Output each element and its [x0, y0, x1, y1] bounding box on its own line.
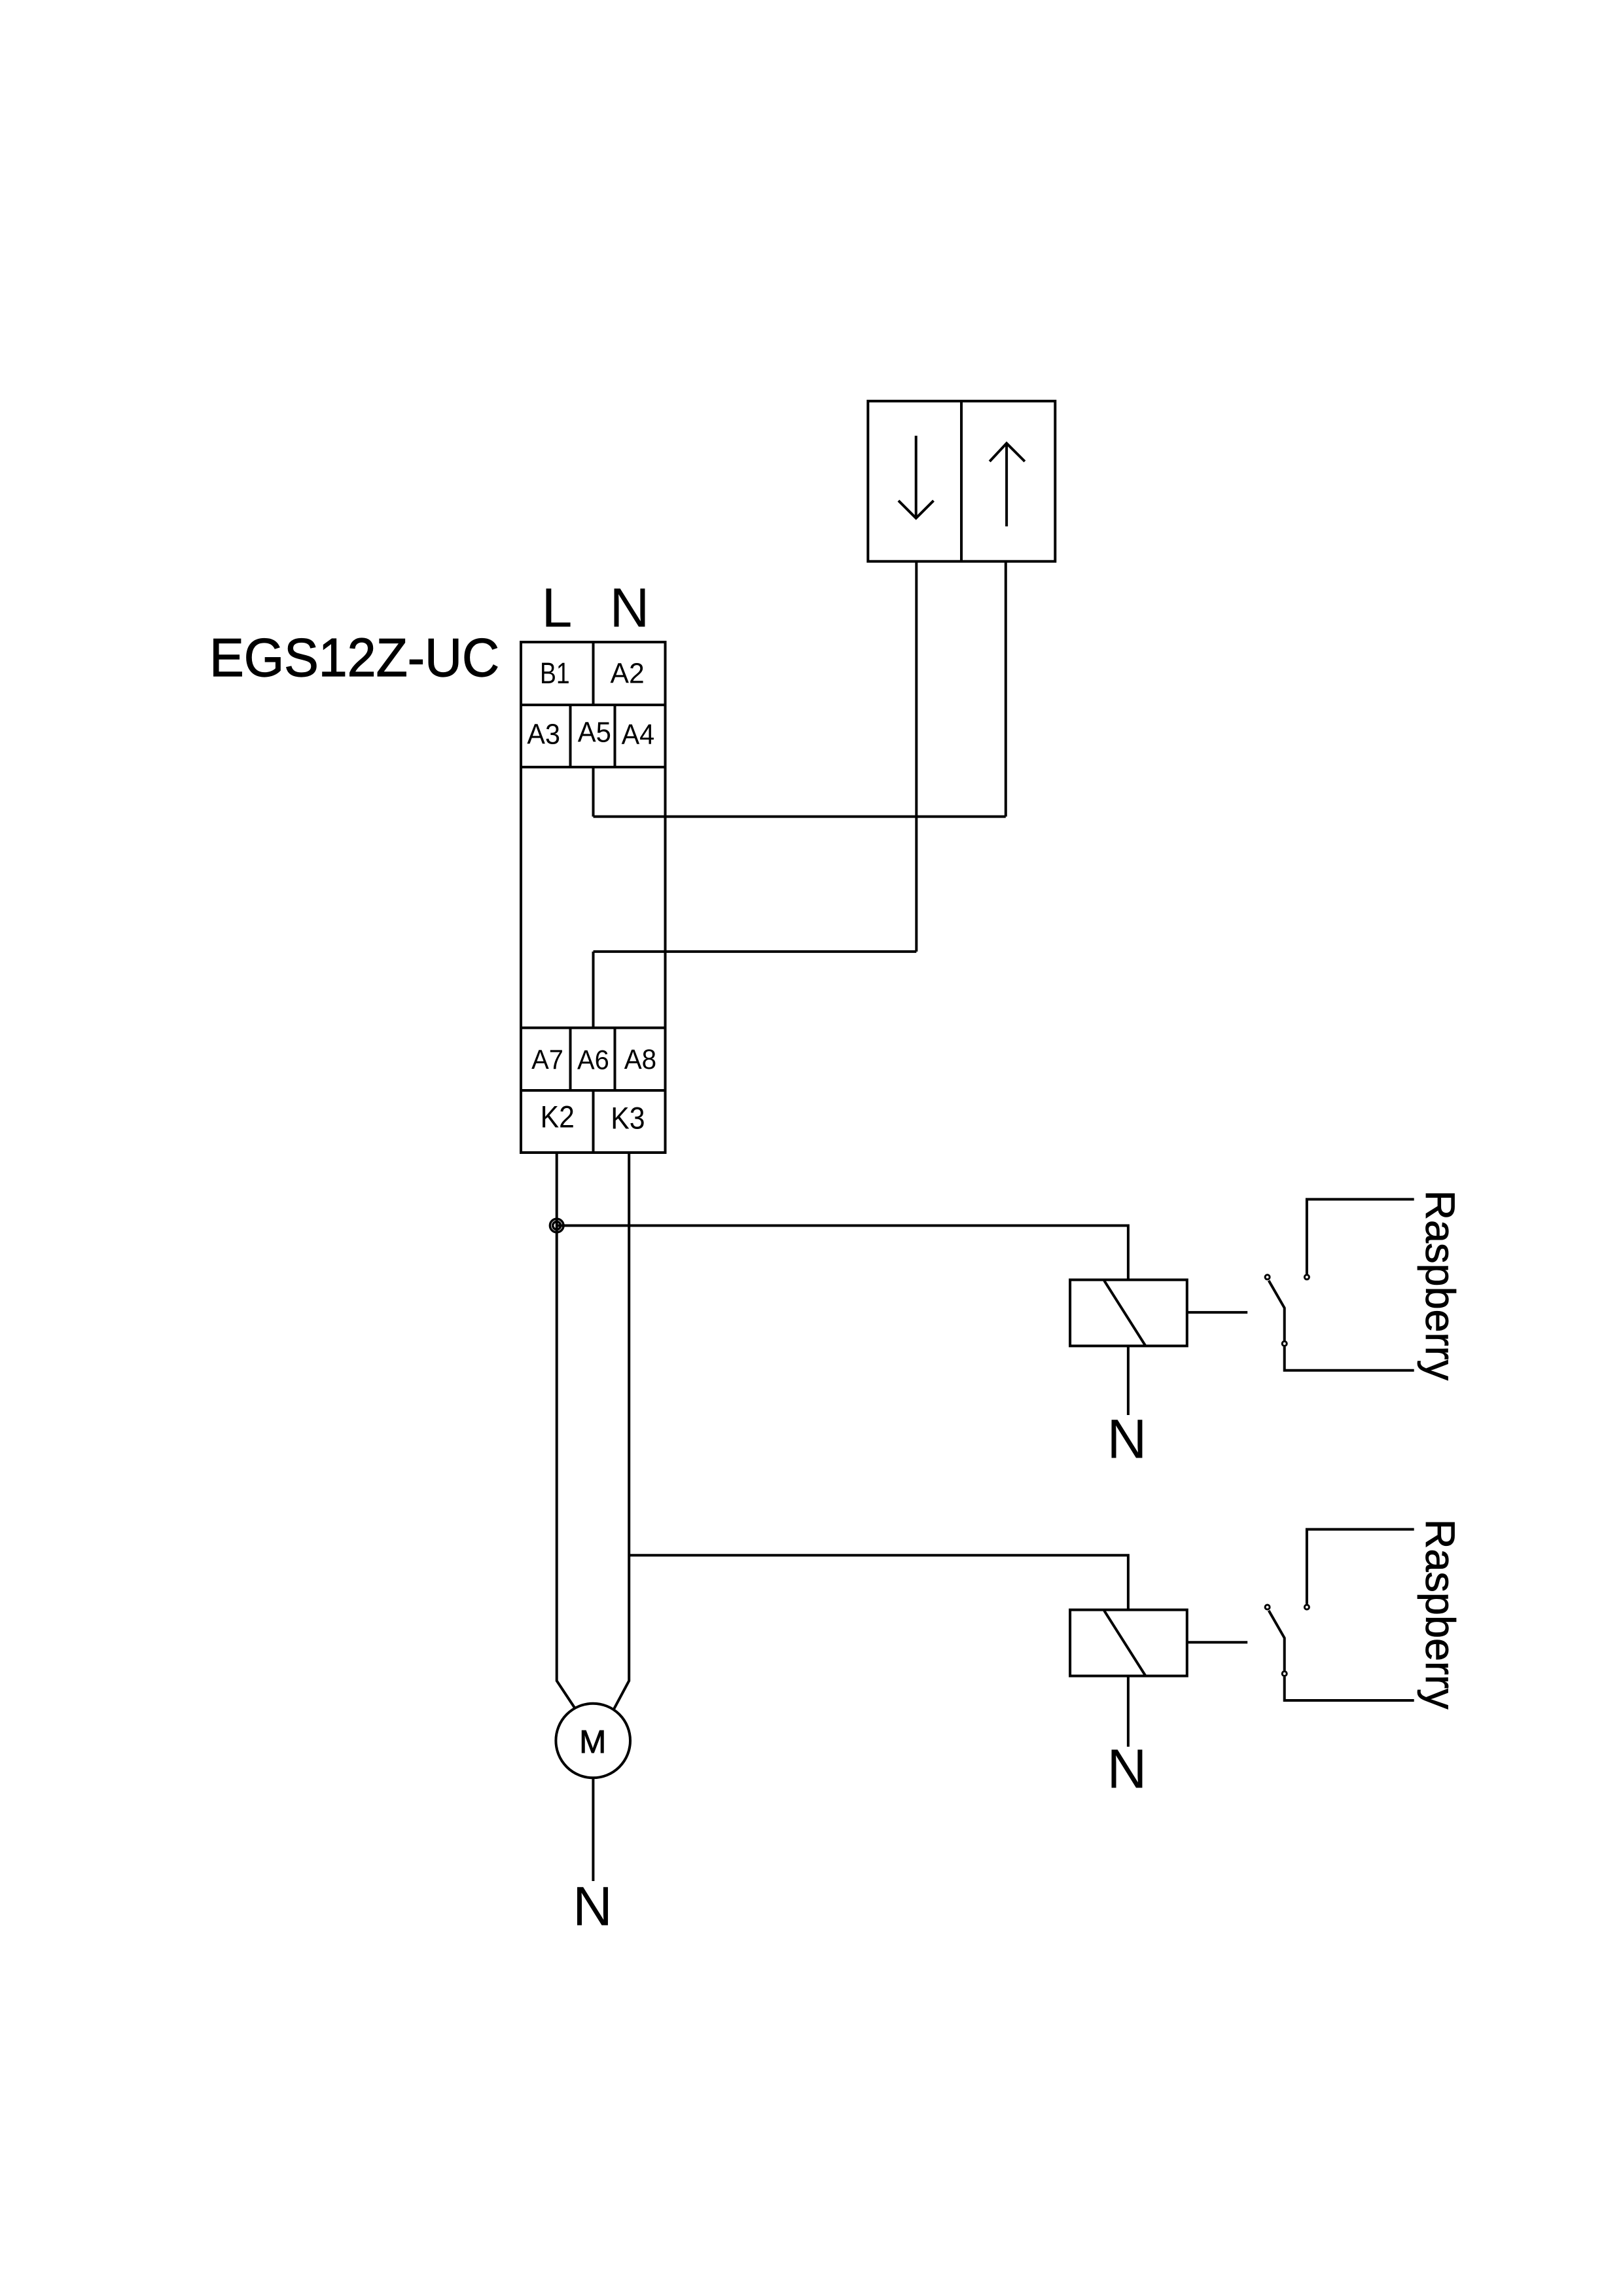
- relay K2 coil box: [1070, 1280, 1187, 1346]
- contact S3 armature: [1269, 1611, 1285, 1671]
- wire contact S2 lower to Raspberry: [1285, 1347, 1414, 1371]
- module U1 row divider above A7/A6/A8: [520, 1026, 667, 1029]
- svg-text:A5: A5: [578, 717, 611, 749]
- wire relay K3 coil output: [1187, 1641, 1247, 1643]
- svg-text:Raspberry: Raspberry: [1417, 1191, 1463, 1381]
- wire relay K2 coil output: [1187, 1311, 1247, 1314]
- contact S2 armature: [1269, 1281, 1285, 1341]
- contact S2 fixed circle: [1304, 1275, 1309, 1280]
- svg-text:N: N: [610, 577, 650, 639]
- wire A6 stub up: [592, 952, 595, 1028]
- contact S3 pivot circle: [1265, 1605, 1270, 1609]
- svg-text:L: L: [542, 577, 573, 639]
- rocker switch S1 divider: [960, 401, 963, 562]
- svg-text:N: N: [573, 1876, 613, 1937]
- svg-text:B1: B1: [540, 657, 570, 690]
- wire switch left to A6 (horizontal): [594, 950, 917, 953]
- svg-text:A6: A6: [577, 1045, 609, 1075]
- relay K3 coil diagonal: [1104, 1611, 1145, 1676]
- module U1 divider A3|A5: [569, 705, 572, 767]
- module U1 divider A5|A4: [614, 705, 616, 767]
- wire contact S2 upper to Raspberry: [1307, 1199, 1414, 1274]
- wire K3 down to motor: [614, 1153, 629, 1709]
- svg-text:Raspberry: Raspberry: [1417, 1519, 1463, 1710]
- module U1 outline right edge: [664, 642, 667, 1153]
- wire A5 stub down: [592, 767, 595, 817]
- rocker switch S1 down-arrow shaft: [915, 436, 918, 518]
- rocker switch S1 up-arrow head: [990, 443, 1025, 461]
- module U1 divider K2|K3: [592, 1090, 595, 1153]
- svg-text:A8: A8: [624, 1043, 656, 1075]
- wire K2 down to motor: [557, 1153, 575, 1708]
- svg-text:A4: A4: [622, 719, 655, 750]
- module U1 row divider under A3/A5/A4: [520, 766, 667, 768]
- module U1 divider A7|A6: [569, 1028, 572, 1090]
- contact S2 pivot circle: [1265, 1275, 1270, 1280]
- contact S2 lower circle: [1282, 1341, 1287, 1346]
- module U1 divider A6|A8: [614, 1028, 616, 1090]
- svg-text:EGS12Z-UC: EGS12Z-UC: [209, 628, 499, 688]
- svg-text:N: N: [1107, 1738, 1147, 1800]
- module U1 row divider under B1/A2: [520, 704, 667, 706]
- wire relay K3 coil to N: [1127, 1676, 1130, 1747]
- rocker switch S1 box: [868, 401, 1055, 562]
- wire switch right terminal down: [1005, 562, 1007, 817]
- module U1 divider B1|A2: [592, 642, 595, 705]
- rocker switch S1 up-arrow shaft: [1005, 443, 1008, 526]
- svg-text:M: M: [579, 1724, 606, 1760]
- svg-text:A3: A3: [527, 718, 560, 749]
- wire contact S3 lower to Raspberry: [1285, 1677, 1414, 1700]
- junction node on K2 wire: [550, 1219, 563, 1232]
- wire node to relay K2 coil: [557, 1226, 1128, 1280]
- wire contact S3 upper to Raspberry: [1307, 1530, 1414, 1604]
- contact S3 fixed circle: [1304, 1605, 1309, 1609]
- module U1 bottom edge: [520, 1151, 667, 1154]
- module U1 row divider between A7/A6/A8 and K2/K3: [520, 1089, 667, 1092]
- wire relay K2 coil to N: [1127, 1346, 1130, 1415]
- motor M1 circle: [556, 1704, 630, 1778]
- relay K3 coil box: [1070, 1610, 1187, 1676]
- svg-text:N: N: [1107, 1408, 1147, 1469]
- wire motor M1 to N: [592, 1778, 594, 1881]
- rocker switch S1 down-arrow head: [899, 501, 934, 518]
- module U1 outline left edge: [520, 642, 522, 1153]
- wire A5 to switch up-contact (horizontal): [594, 816, 1006, 818]
- contact S3 lower circle: [1282, 1672, 1287, 1676]
- svg-text:A7: A7: [531, 1044, 563, 1075]
- relay K2 coil diagonal: [1104, 1281, 1145, 1346]
- wire K3 branch to relay K3 coil: [629, 1555, 1128, 1609]
- svg-text:K3: K3: [611, 1100, 645, 1136]
- svg-text:A2: A2: [611, 658, 645, 690]
- wire switch left terminal down: [915, 562, 918, 952]
- module U1 top edge: [520, 641, 667, 643]
- svg-text:K2: K2: [541, 1099, 575, 1134]
